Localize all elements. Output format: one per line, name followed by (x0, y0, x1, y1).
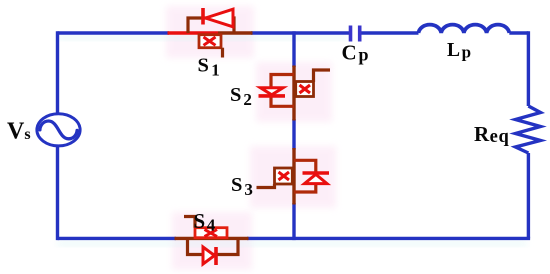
wire left side lower (56, 146, 59, 240)
svg-text:Cp: Cp (342, 40, 369, 64)
S2 diode loop (271, 75, 294, 107)
S3 gate lead (257, 184, 275, 188)
wire middle bottom blue segment (292, 203, 295, 240)
wire top-left blue segment (58, 31, 170, 34)
S1 diode bar (201, 8, 205, 25)
artifact halo S4 (172, 212, 252, 270)
S1 pass wire dark red (218, 31, 253, 34)
switch S4 group (175, 217, 249, 266)
S3 diode triangle (305, 174, 328, 183)
S2 diode triangle (261, 88, 284, 95)
S2 mosfet X (300, 85, 311, 93)
resistor Req zigzag (516, 106, 541, 153)
S1 mosfet X (204, 37, 216, 45)
S1 diode loop (188, 18, 234, 33)
wire Lp to top-right corner (509, 31, 528, 34)
wire middle top blue segment (292, 31, 295, 67)
svg-text:Lp: Lp (447, 40, 471, 61)
S3 mosfet X (279, 172, 290, 180)
S3 pass wire dark red (292, 148, 295, 205)
S4 diode loop (188, 238, 239, 254)
S2 diode bar (259, 94, 286, 98)
capacitor Cp plates (351, 26, 360, 42)
S4 gate lead (184, 217, 195, 228)
artifact halo S3 (250, 146, 336, 208)
S4 diode bar (214, 247, 218, 265)
wire right side upper (527, 31, 530, 106)
wire Cp to Lp (361, 31, 419, 34)
source Vs ellipse (37, 114, 80, 146)
S3 diode bar (303, 171, 330, 175)
S4 mosfet box (195, 228, 227, 238)
wire middle between S2 and S3 (292, 119, 295, 150)
wire bottom left blue segment (58, 237, 177, 240)
S4 pass wire dark red (175, 237, 249, 240)
wire left side upper (56, 31, 59, 113)
S1 gate stub (221, 48, 224, 58)
switch S1 group (168, 8, 253, 58)
S4 mosfet X (205, 230, 218, 237)
artifact halo bottom wire (57, 241, 527, 246)
S2 mosfet box (296, 82, 314, 97)
S3 diode loop (294, 160, 316, 192)
wire right side lower (527, 153, 530, 238)
S1 pass wire bright red (168, 31, 219, 34)
inductor Lp (419, 25, 510, 33)
S3 mosfet box (275, 168, 293, 184)
wire top middle blue segment (S1 to Cp) (251, 31, 349, 34)
S1 diode triangle (206, 9, 234, 27)
artifact halo S1 (166, 6, 254, 58)
S4 diode triangle (203, 247, 215, 264)
artifact halo S2 (256, 62, 332, 122)
S2 gate lead (314, 70, 331, 82)
S2 pass wire dark red (292, 66, 295, 121)
switch S2 group (259, 66, 331, 121)
source Vs sine wave (40, 121, 77, 139)
S1 mosfet box (199, 35, 221, 48)
wire bottom right blue segment (247, 237, 530, 240)
artifact halo top wire (57, 35, 347, 40)
switch S3 group (257, 148, 330, 205)
